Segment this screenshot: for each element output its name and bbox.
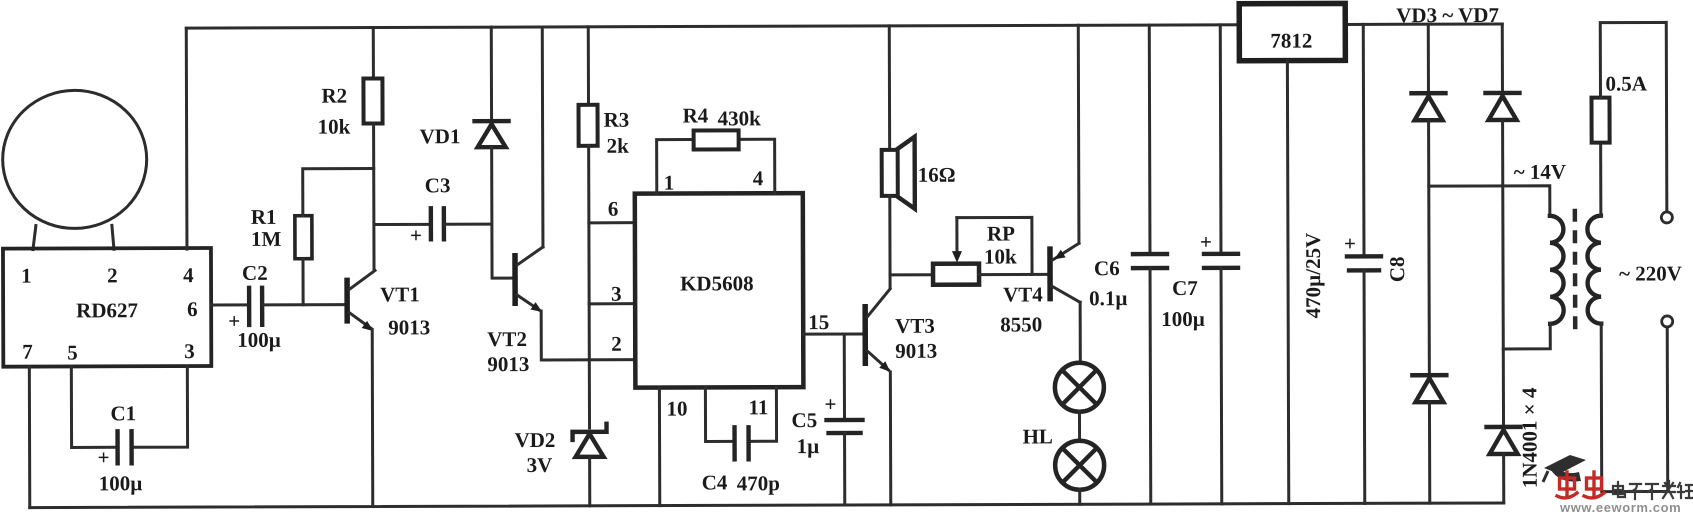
svg-text:+: + <box>410 223 422 247</box>
lamp HL lower <box>1023 424 1105 490</box>
wire: VT1 emitter down to ground rail <box>371 330 375 507</box>
logo: red character chong 2 <box>1584 472 1604 498</box>
wire: R3 bottom down to VD2 <box>587 146 591 428</box>
wire: C2 to VT1 base (node with R1) <box>263 303 345 306</box>
wire: R2 bottom to VT1 collector <box>372 123 375 269</box>
svg-text:R1: R1 <box>251 205 277 229</box>
wire: node to KD5608 pin 3 <box>589 302 635 305</box>
wire: RD627 pin 3 down to C1 <box>134 366 187 447</box>
svg-text:C4: C4 <box>702 470 728 494</box>
wire: sensor leg to pin 2 <box>112 225 114 249</box>
capacitor C2 100u <box>228 261 281 352</box>
speaker BL 16ohm <box>882 137 956 209</box>
wire: top rail down to R3 <box>587 27 590 105</box>
wire: top rail down to VD1 <box>490 27 493 121</box>
svg-text:8550: 8550 <box>1000 312 1042 336</box>
svg-text:C3: C3 <box>425 173 451 197</box>
wire: bridge right column middle <box>1501 120 1505 427</box>
capacitor C8 470u/25V <box>1344 231 1409 282</box>
svg-text:~ 220V: ~ 220V <box>1619 261 1682 285</box>
svg-text:+: + <box>1200 230 1212 254</box>
wire: C4 left stub from IC bottom <box>705 387 731 441</box>
wire: rail corner down to bridge right top <box>1501 24 1504 93</box>
svg-text:HL: HL <box>1023 424 1053 448</box>
svg-text:RP: RP <box>987 221 1015 245</box>
resistor R3 2k <box>579 105 630 158</box>
wire: between lamps <box>1078 411 1081 440</box>
wire: top rail down to C8 <box>1362 24 1366 256</box>
svg-text:0.5A: 0.5A <box>1605 71 1647 95</box>
svg-text:C8: C8 <box>1385 256 1409 282</box>
wire: ~14V node from bridge to transformer secondary <box>1429 186 1550 216</box>
wire: pin 4 stub up <box>739 139 775 193</box>
wire: VT2 collector up to top rail <box>541 27 545 247</box>
svg-text:3V: 3V <box>527 453 553 477</box>
resistor R2 10k <box>317 78 382 138</box>
wire: C8 bottom to ground rail <box>1363 270 1367 503</box>
diode VD (bridge left bottom) <box>1412 375 1446 402</box>
svg-text:R3: R3 <box>604 108 630 132</box>
svg-text:VT2: VT2 <box>487 327 527 351</box>
svg-text:6: 6 <box>187 297 198 321</box>
wire: secondary bottom to bridge column <box>1503 324 1550 349</box>
diode VD (bridge right bottom) <box>1487 427 1521 454</box>
wire: pin 11 stub down to C4 <box>751 387 776 441</box>
svg-text:470p: 470p <box>737 471 780 495</box>
wire: rail down to bridge diode left top <box>1427 24 1430 93</box>
svg-text:470µ/25V: 470µ/25V <box>1301 233 1325 319</box>
terminal: 220V lower <box>1662 316 1673 327</box>
svg-text:7: 7 <box>22 340 33 364</box>
transistor VT1 9013 <box>347 270 430 339</box>
svg-text:9013: 9013 <box>895 339 937 363</box>
wire: VD2 anode to ground rail <box>588 457 591 506</box>
wire: C5 bottom to ground rail <box>843 433 846 505</box>
wire: VD1 anode down to VT2 base <box>492 147 513 278</box>
wire: C6 bottom to ground rail <box>1149 268 1153 504</box>
logo: red character chong 1 <box>1557 472 1577 498</box>
svg-text:10k: 10k <box>318 115 351 139</box>
wire: RP wiper arrow <box>952 218 962 263</box>
svg-text:5: 5 <box>67 340 78 364</box>
svg-text:100µ: 100µ <box>99 471 143 495</box>
wire: node to KD5608 pin 6 <box>589 221 635 224</box>
wire: pin 1 stub up <box>657 139 694 193</box>
transistor VT2 9013 <box>487 247 543 376</box>
wire: top rail down to R2 <box>372 27 375 78</box>
wire: speaker bottom to VT3 collector <box>888 196 891 288</box>
wire: RP wiper to right terminal (node) <box>957 217 1032 274</box>
svg-text:1µ: 1µ <box>797 434 820 458</box>
svg-text:1M: 1M <box>251 227 282 251</box>
svg-text:16Ω: 16Ω <box>918 163 956 187</box>
wire: RD627 pin 4 up to top rail <box>185 28 189 249</box>
wire: pin 15 to VT3 base <box>803 332 863 335</box>
resistor R4 430k <box>683 103 762 149</box>
transformer core (dashed) <box>1573 209 1578 331</box>
wire: fuse up and over to 220V line <box>1600 22 1667 211</box>
capacitor C3 <box>410 173 451 247</box>
svg-text:R2: R2 <box>321 84 347 108</box>
svg-text:7812: 7812 <box>1270 29 1312 53</box>
logo: text dianzi xiazaizhan (drawn glyphs) <box>1613 481 1693 499</box>
svg-text:3: 3 <box>611 282 622 306</box>
svg-text:3: 3 <box>184 339 195 363</box>
capacitor C4 470p <box>702 427 780 495</box>
svg-text:VT4: VT4 <box>1003 282 1043 306</box>
wire: top rail down to C7 <box>1219 25 1223 254</box>
wire: top rail down to speaker <box>888 26 891 150</box>
svg-text:C5: C5 <box>791 408 817 432</box>
svg-text:RD627: RD627 <box>76 298 138 322</box>
svg-text:11: 11 <box>748 395 768 419</box>
svg-text:9013: 9013 <box>388 315 430 339</box>
svg-text:6: 6 <box>608 197 619 221</box>
IC U1 KD5608 <box>635 193 804 388</box>
svg-text:C2: C2 <box>242 261 268 285</box>
wire: bridge right column to ground rail <box>1502 454 1505 503</box>
wire: 7812 ground pin down to ground rail <box>1287 61 1288 504</box>
svg-text:VT1: VT1 <box>380 282 420 306</box>
diode VD (bridge right top) <box>1485 93 1519 120</box>
potentiometer RP 10k <box>933 221 1017 284</box>
svg-text:9013: 9013 <box>487 352 529 376</box>
svg-text:1: 1 <box>664 171 675 195</box>
transistor VT4 8550 <box>1000 243 1080 336</box>
svg-text:C7: C7 <box>1172 276 1198 300</box>
wire: C3 to VD1 anode line <box>445 223 491 226</box>
resistor R1 1M <box>251 205 312 259</box>
svg-text:1N4001 × 4: 1N4001 × 4 <box>1517 387 1541 488</box>
svg-text:VT3: VT3 <box>895 314 935 338</box>
wire: lower terminal around to primary bottom <box>1601 323 1668 491</box>
svg-text:VD2: VD2 <box>515 428 556 452</box>
wire: C5 tap down from pin 15 wire <box>843 334 846 419</box>
svg-text:+: + <box>1344 231 1356 255</box>
svg-text:VD3 ~ VD7: VD3 ~ VD7 <box>1396 3 1499 27</box>
fuse FU 0.5A <box>1591 71 1647 142</box>
wire: RD627 pin 5 down to C1 <box>71 366 114 447</box>
wire: lamp to ground rail <box>1078 489 1081 504</box>
transistor VT3 9013 <box>865 289 937 372</box>
svg-text:1: 1 <box>21 264 32 288</box>
wire: C7 bottom to ground rail <box>1220 268 1224 504</box>
wire: RD627 pin 7 down to ground rail <box>28 367 31 508</box>
svg-text:15: 15 <box>808 310 829 334</box>
capacitor C7 100u <box>1161 230 1238 331</box>
wire: collector node to RP left end <box>890 273 933 276</box>
svg-text:www.eeworm.com: www.eeworm.com <box>1559 500 1681 514</box>
transformer T primary winding <box>1587 216 1601 324</box>
svg-text:2: 2 <box>611 332 622 356</box>
svg-text:10k: 10k <box>984 244 1017 268</box>
svg-text:2k: 2k <box>607 134 630 158</box>
wire: R1 bottom to base node <box>301 259 304 305</box>
svg-text:R4: R4 <box>683 103 709 127</box>
logo: graduation cap <box>1543 455 1586 482</box>
wire: RP right end to VT4 base <box>979 273 1048 276</box>
wire: bridge left column middle <box>1427 120 1431 375</box>
svg-text:10: 10 <box>666 397 687 421</box>
svg-text:VD1: VD1 <box>420 124 461 148</box>
wire: bridge left column to ground rail <box>1428 402 1431 503</box>
wire: ground bottom rail <box>30 503 1504 508</box>
svg-text:C6: C6 <box>1094 256 1120 280</box>
capacitor C6 0.1u <box>1089 254 1167 310</box>
transformer T secondary winding <box>1550 216 1564 324</box>
wire: VT3 emitter down to ground rail <box>889 372 892 505</box>
svg-text:KD5608: KD5608 <box>680 271 754 295</box>
svg-text:4: 4 <box>183 263 194 287</box>
wire: top rail down through C6 position <box>1148 25 1152 254</box>
wire: VT2 emitter down and to KD5608 pin 2 <box>541 311 635 360</box>
svg-text:4: 4 <box>753 166 764 190</box>
svg-text:430k: 430k <box>718 106 762 130</box>
svg-text:2: 2 <box>107 263 118 287</box>
module RD627 <box>3 248 211 367</box>
diode VD (bridge left top) <box>1411 93 1445 120</box>
regulator U2 7812 <box>1239 3 1345 60</box>
wire: sensor leg to pin 1 <box>33 226 36 250</box>
svg-text:0.1µ: 0.1µ <box>1089 286 1127 310</box>
sensor head of RD627 (ball) <box>2 90 146 228</box>
wire: VT4 emitter up to top rail <box>1077 25 1081 243</box>
zener diode VD2 3V <box>515 424 607 477</box>
wire: top rail right segment (7812 input side) <box>1345 22 1502 25</box>
svg-text:C1: C1 <box>110 401 136 425</box>
svg-text:100µ: 100µ <box>237 328 281 352</box>
wire: R1 top to VT1 collector node <box>303 168 374 215</box>
svg-text:100µ: 100µ <box>1161 307 1205 331</box>
wire: +12V top supply rail <box>186 25 1239 28</box>
diode VD1 <box>420 121 509 148</box>
wire: RD627 pin 6 to C2 <box>211 303 247 306</box>
lamp HL upper <box>1055 363 1104 412</box>
capacitor C1 100u <box>97 401 142 495</box>
terminal: 220V upper <box>1661 212 1672 223</box>
wire: VT1 collector node to C3 <box>375 223 429 226</box>
capacitor C5 1u <box>791 392 862 458</box>
svg-text:~ 14V: ~ 14V <box>1514 160 1566 184</box>
svg-text:+: + <box>98 445 110 469</box>
wire: VT4 collector down to lamps <box>1079 302 1082 363</box>
svg-text:+: + <box>824 392 836 416</box>
wire: pin 10 down to ground rail <box>658 388 661 506</box>
wire: primary top to fuse <box>1599 143 1602 216</box>
